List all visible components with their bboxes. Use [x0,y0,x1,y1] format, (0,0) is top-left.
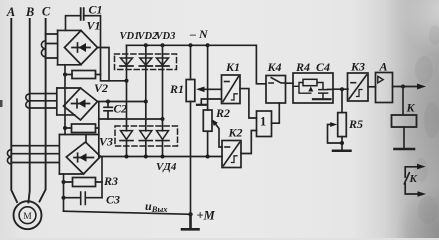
svg-text:A: A [379,60,388,74]
junction VD2 lead [144,100,148,104]
wire: R4C4 to K3 [333,88,348,90]
svg-text:V2: V2 [94,81,108,95]
wire: T2 secondary rungs [30,88,57,115]
junction R3 left [62,180,66,184]
wire: V1 right corner down [98,48,110,81]
svg-text:R3: R3 [103,174,118,188]
logic OR block 1 [257,111,272,137]
svg-text:R2: R2 [215,106,230,120]
capacitor C1 [66,8,101,74]
junction V2 minus node [63,126,67,130]
wire: V3 right corner down [101,157,103,198]
svg-text:C1: C1 [89,3,103,17]
junction C2 top [106,100,110,104]
svg-text:1: 1 [260,115,266,129]
wire: phase line A [11,19,17,202]
terminal +M [182,214,199,229]
diode VD2 [139,45,152,131]
amplifier A [376,73,393,103]
junction R5 bottom [340,141,344,145]
svg-text:K2: K2 [228,126,243,140]
current transformer T3 winding on line A [7,150,11,164]
wire: V2 output to VD2 [98,101,146,103]
wire: V2 lower output to VD3 [99,118,163,120]
wire: output arrow [393,86,420,88]
wire: V3 left chain down to output bus [63,174,65,211]
junction VD4b rail [144,155,148,159]
diode VD1 [120,45,133,131]
terminal coil common [395,148,415,151]
wire: T2 to bridge V2 top [57,87,81,89]
svg-text:М: М [23,212,32,222]
dashed box VD4 [115,126,178,146]
relay element K4 [266,76,286,104]
wire: phase line B [28,19,29,203]
terminal common under R1 [197,104,206,106]
junction R1 top [189,43,193,47]
wire: R2 wiper to K2 [216,124,222,147]
svg-text:C3: C3 [106,193,120,207]
wire: VD4 cathode rail to K2 [99,156,222,158]
wire: phase line C [40,19,46,202]
capacitor C2 [104,102,112,120]
capacitor C3 [64,192,103,205]
wire: coil to common [403,127,405,149]
wire: K4 to R4C4 [286,82,294,84]
wire: R1 wiper to K1 [203,88,222,90]
diode bridge V3 [66,142,100,174]
svg-text:VD3: VD3 [156,31,176,42]
RC timing block R4 C4 [293,73,333,103]
diode bridge V2 [64,88,98,120]
dashed box VD1-VD3 [115,54,177,70]
relay contact K [404,167,420,194]
svg-text:+М: +М [197,209,216,223]
wire: T1 to bridge V1 bottom [58,64,81,66]
diode VD4a [120,131,133,157]
resistor in V2 cell [65,124,99,133]
svg-text:VD1: VD1 [120,31,140,42]
wire: V1 output to VD1 [101,75,127,81]
svg-text:C2: C2 [114,104,128,116]
svg-text:B: B [25,5,34,19]
junction VD4a rail [125,155,129,159]
junction VD1-V1 [125,79,129,83]
wire: chain V1-V2-V3 left [64,65,66,135]
junction VD2 top [144,43,148,47]
svg-text:K3: K3 [350,60,365,74]
resistor R3 [64,178,103,187]
wire: K1 lower input to common [201,99,221,104]
wire: K1 output to OR block [240,89,257,118]
wire: T1 to bridge V1 top [58,29,81,31]
wire: K2 output to OR block [241,131,257,154]
junction VD4c rail [161,155,165,159]
relay coil K [392,115,417,127]
wire: to relay coil [402,87,404,116]
comparator K1 [222,75,241,104]
junction R2 top [206,43,210,47]
wire: output bus uVyh [64,211,191,214]
svg-text:R5: R5 [348,117,363,131]
junction R2 bottom rail [206,155,210,159]
svg-text:V3: V3 [99,135,113,149]
wire: T3 secondary rungs [11,135,59,175]
current transformer T2 winding on line B [26,94,30,108]
wire: -N bus [127,45,267,84]
resistor R2 potentiometer [203,45,212,156]
svg-text:K: K [409,173,418,185]
svg-text:A: A [6,5,15,19]
diode VD3 [156,45,169,131]
resistor R5 potentiometer [328,89,347,150]
svg-text:K: K [406,101,416,115]
svg-text:V1: V1 [87,19,101,33]
junction V1 minus node [63,73,67,77]
wire: T2 to bridge V2 bottom [57,114,75,116]
diode VD4b [139,131,152,157]
wire: T3 upper wire to V3 top [59,135,98,143]
junction VD3 top [161,43,165,47]
junction VD3 lead [161,117,165,121]
motor M1 [14,201,42,229]
wire: V2 right corner chain down to V3 [98,102,100,157]
wire: OR output to K4 [272,103,280,123]
diode VD4c [156,131,169,157]
svg-text:VД4: VД4 [156,161,177,173]
svg-text:K4: K4 [267,60,282,74]
svg-text:R4: R4 [295,60,310,74]
svg-text:K1: K1 [225,60,240,74]
svg-text:R1: R1 [169,82,184,96]
wire: T3 to bridge V3 bottom [59,173,83,175]
junction R5 top [340,87,344,91]
comparator K2 [222,141,241,168]
wire: T1 secondary rungs [46,30,58,64]
terminal R5 common [333,149,351,152]
diode bridge V1 [65,31,98,65]
junction +M [188,212,192,216]
svg-text:– N: – N [189,27,209,41]
svg-text:C: C [42,5,51,19]
resistor R1 potentiometer [186,45,195,228]
comparator K3 [348,73,369,101]
current transformer T1 winding on line C [41,41,45,57]
svg-text:C4: C4 [316,60,330,74]
resistor in V1 cell [65,71,101,79]
junction relay branch [401,85,405,89]
wire: K3 to A [368,86,376,88]
junction C3 left [62,196,66,200]
